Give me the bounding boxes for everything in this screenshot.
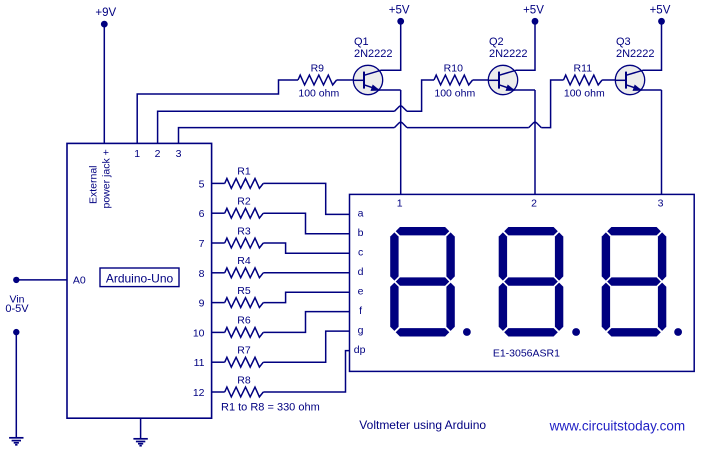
svg-text:100 ohm: 100 ohm — [298, 88, 339, 100]
svg-text:9: 9 — [199, 298, 205, 310]
svg-text:power jack +: power jack + — [101, 149, 113, 208]
svg-text:a: a — [358, 208, 364, 220]
svg-text:A0: A0 — [73, 275, 86, 287]
svg-text:3: 3 — [176, 148, 182, 160]
svg-text:100 ohm: 100 ohm — [564, 88, 605, 100]
svg-text:1: 1 — [397, 198, 403, 210]
svg-text:2: 2 — [531, 198, 537, 210]
svg-text:0-5V: 0-5V — [5, 303, 29, 315]
svg-text:f: f — [359, 305, 362, 317]
svg-text:E1-3056ASR1: E1-3056ASR1 — [493, 348, 560, 360]
svg-text:R2: R2 — [237, 196, 251, 208]
svg-text:1: 1 — [134, 148, 140, 160]
svg-text:R6: R6 — [237, 315, 251, 327]
svg-text:11: 11 — [194, 357, 205, 369]
svg-text:12: 12 — [193, 387, 205, 399]
svg-text:+5V: +5V — [389, 4, 410, 16]
svg-text:100 ohm: 100 ohm — [434, 88, 475, 100]
svg-text:R10: R10 — [444, 62, 463, 74]
svg-text:7: 7 — [199, 238, 205, 250]
svg-text:2N2222: 2N2222 — [489, 48, 528, 60]
svg-text:5: 5 — [199, 178, 205, 190]
svg-text:R4: R4 — [237, 255, 251, 267]
svg-text:Q3: Q3 — [616, 36, 631, 48]
svg-text:2N2222: 2N2222 — [354, 48, 393, 60]
svg-text:R1 to R8 = 330 ohm: R1 to R8 = 330 ohm — [221, 402, 320, 414]
svg-text:www.circuitstoday.com: www.circuitstoday.com — [549, 418, 686, 433]
svg-text:External: External — [88, 165, 100, 204]
svg-text:b: b — [358, 227, 364, 239]
svg-text:g: g — [358, 324, 364, 336]
svg-text:+5V: +5V — [523, 4, 544, 16]
svg-text:e: e — [358, 285, 364, 297]
svg-text:d: d — [358, 266, 364, 278]
svg-text:R5: R5 — [237, 285, 251, 297]
svg-text:3: 3 — [658, 198, 664, 210]
svg-text:8: 8 — [199, 268, 205, 280]
svg-text:Q1: Q1 — [354, 36, 369, 48]
svg-text:10: 10 — [193, 327, 205, 339]
svg-text:R8: R8 — [237, 374, 251, 386]
svg-text:+9V: +9V — [95, 7, 116, 19]
svg-text:c: c — [358, 247, 363, 259]
svg-text:+5V: +5V — [650, 4, 671, 16]
svg-text:Arduino-Uno: Arduino-Uno — [106, 271, 174, 285]
svg-text:dp: dp — [354, 344, 366, 356]
svg-text:R1: R1 — [237, 166, 251, 178]
svg-text:R7: R7 — [237, 345, 251, 357]
svg-text:6: 6 — [199, 208, 205, 220]
svg-text:Voltmeter using Arduino: Voltmeter using Arduino — [359, 418, 486, 432]
svg-text:R3: R3 — [237, 225, 251, 237]
svg-text:2: 2 — [155, 148, 161, 160]
svg-text:Q2: Q2 — [489, 36, 504, 48]
svg-text:R9: R9 — [311, 62, 325, 74]
svg-text:R11: R11 — [574, 62, 593, 74]
svg-text:2N2222: 2N2222 — [616, 48, 655, 60]
